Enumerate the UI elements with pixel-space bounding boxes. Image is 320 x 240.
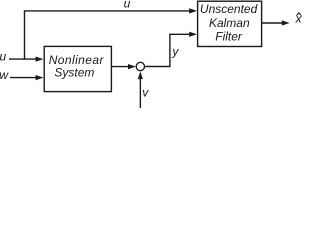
svg-text:u: u <box>0 50 7 64</box>
wire: u branch from junction up and across to Unscented Kalman Filter <box>25 8 198 59</box>
label x-hat (estimated state) <box>295 12 303 26</box>
svg-text:System: System <box>54 66 94 80</box>
svg-text:u: u <box>124 0 131 10</box>
svg-text:w: w <box>0 68 9 82</box>
block: Unscented Kalman Filter <box>198 1 262 46</box>
wire: Nonlinear System output to summing junction <box>112 64 136 69</box>
svg-text:v: v <box>142 86 149 100</box>
wire: w input line into Nonlinear System <box>10 75 43 80</box>
wire: v noise input into summing junction <box>138 71 143 108</box>
wire: u input line into Nonlinear System <box>9 57 43 62</box>
svg-text:Unscented: Unscented <box>200 2 258 16</box>
svg-text:y: y <box>171 45 179 59</box>
summing junction <box>136 62 144 70</box>
block: Nonlinear System <box>44 46 111 91</box>
wire: summing junction output y to Unscented Kalman Filter <box>145 32 197 67</box>
svg-text:Filter: Filter <box>215 30 243 44</box>
svg-text:Kalman: Kalman <box>209 16 250 30</box>
wire: Unscented Kalman Filter output <box>262 20 290 25</box>
